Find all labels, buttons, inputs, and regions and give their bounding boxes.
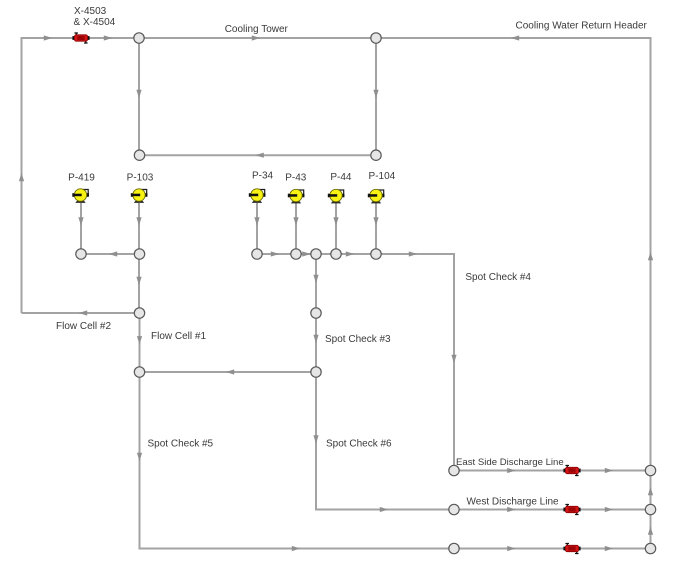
inline device on East Side Discharge Line [563, 465, 580, 476]
pump P-34 [249, 189, 266, 203]
wire bottom run from node J to node K [459, 546, 645, 551]
wire P-103 discharge drop to node F [136, 203, 141, 249]
inline device X-4503 & X-4504 [72, 32, 89, 43]
label P-34 [252, 171, 274, 182]
label Spot Check #5 [148, 439, 214, 450]
wire East Side Discharge Line run [459, 468, 645, 473]
label P-419 [68, 173, 95, 184]
node B top header right branch [371, 33, 381, 43]
svg-text:Flow Cell #1: Flow Cell #1 [151, 331, 206, 342]
inline device on West Discharge Line [563, 504, 580, 515]
pump P-104 [368, 189, 385, 203]
node east line start [449, 465, 459, 475]
label P-104 [369, 171, 396, 182]
label West Discharge Line [467, 496, 560, 507]
svg-text:West Discharge Line: West Discharge Line [467, 496, 560, 507]
label Cooling Tower [225, 24, 289, 35]
label P-103 [127, 173, 154, 184]
node east line end [645, 465, 655, 475]
node Spot Check #3 top [311, 308, 321, 318]
svg-text:East Side Discharge Line: East Side Discharge Line [456, 457, 564, 468]
svg-text:& X-4504: & X-4504 [74, 17, 116, 28]
svg-text:P-103: P-103 [127, 173, 154, 184]
svg-text:Spot Check #6: Spot Check #6 [326, 439, 392, 450]
pump P-419 [72, 189, 89, 203]
svg-text:Flow Cell #2: Flow Cell #2 [56, 321, 111, 332]
node west line end [645, 504, 655, 514]
wire cooling-water supply: left riser and top header into node A [19, 35, 134, 313]
label X-4503 line 2 [74, 17, 116, 28]
pump P-103 [131, 189, 148, 203]
svg-text:P-419: P-419 [68, 173, 95, 184]
wire P-44 discharge drop [333, 203, 338, 249]
label P-44 [330, 172, 352, 183]
wire P-104 discharge drop [373, 203, 378, 249]
svg-text:P-44: P-44 [330, 172, 352, 183]
wire right riser from west node to bottom node [648, 515, 653, 544]
wire P-419 discharge drop to node E [78, 203, 83, 249]
label P-43 [285, 173, 307, 184]
node manifold junction [311, 249, 321, 259]
node west line mid [449, 504, 459, 514]
label X-4503 line 1 [74, 6, 107, 17]
pump P-43 [288, 189, 305, 203]
node manifold P-43 [291, 249, 301, 259]
node E below P-419 [76, 249, 86, 259]
node I [311, 367, 321, 377]
svg-text:P-34: P-34 [252, 171, 274, 182]
wire Flow Cell #1 drop from node G to node H [137, 318, 142, 367]
svg-text:Spot Check #5: Spot Check #5 [148, 439, 214, 450]
wire West Discharge Line run [459, 507, 645, 512]
svg-text:P-43: P-43 [285, 173, 307, 184]
label Spot Check #4 [465, 272, 531, 283]
wire right riser from east node to west node [648, 476, 653, 505]
wire drop from node A to node C [136, 43, 141, 150]
wire top header from node A to node B under Cooling Tower label [144, 35, 371, 40]
node bottom line mid J [449, 543, 459, 553]
wire from node F to node E [86, 251, 134, 256]
wire Spot Check #3 / #6 drop from manifold junction down and over to west node [313, 259, 448, 512]
wire drop from node B to node D [373, 43, 378, 150]
inline device on bottom discharge run [563, 543, 580, 554]
node manifold P-104 [371, 249, 381, 259]
label Spot Check #3 [325, 334, 391, 345]
node C [134, 150, 144, 160]
wire from node I to node H [145, 369, 311, 374]
node H [134, 367, 144, 377]
label Flow Cell #1 [151, 331, 206, 342]
wire Spot Check #5 drop from node H and bottom run to node J [137, 377, 449, 551]
svg-text:P-104: P-104 [369, 171, 396, 182]
node F below P-103 [134, 249, 144, 259]
node A top header left branch [134, 33, 144, 43]
svg-text:Spot Check #4: Spot Check #4 [465, 272, 531, 283]
svg-text:Cooling Tower: Cooling Tower [225, 24, 289, 35]
label Spot Check #6 [326, 439, 392, 450]
node D [371, 150, 381, 160]
svg-text:Spot Check #3: Spot Check #3 [325, 334, 391, 345]
node manifold P-34 [252, 249, 262, 259]
label Flow Cell #2 [56, 321, 111, 332]
wire P-34 discharge drop [254, 203, 259, 249]
node G Flow Cell #2 junction [134, 308, 144, 318]
node manifold P-44 [331, 249, 341, 259]
wire Cooling Water Return Header: top-right run and right riser down to east node [381, 35, 653, 465]
pump P-44 [328, 189, 345, 203]
wire from node F down to node G [136, 259, 141, 308]
label East Side Discharge Line [456, 457, 564, 468]
wire pump manifold to Spot Check #4 drop down to east node [262, 251, 456, 465]
svg-text:X-4503: X-4503 [74, 6, 107, 17]
svg-text:Cooling Water Return Header: Cooling Water Return Header [516, 20, 648, 31]
wire from node D to node C [144, 153, 370, 158]
wire P-43 discharge drop [293, 203, 298, 249]
label Cooling Water Return Header [516, 20, 648, 31]
node bottom line end K [645, 543, 655, 553]
wire Flow Cell #2 run from node G to left riser [22, 310, 135, 315]
